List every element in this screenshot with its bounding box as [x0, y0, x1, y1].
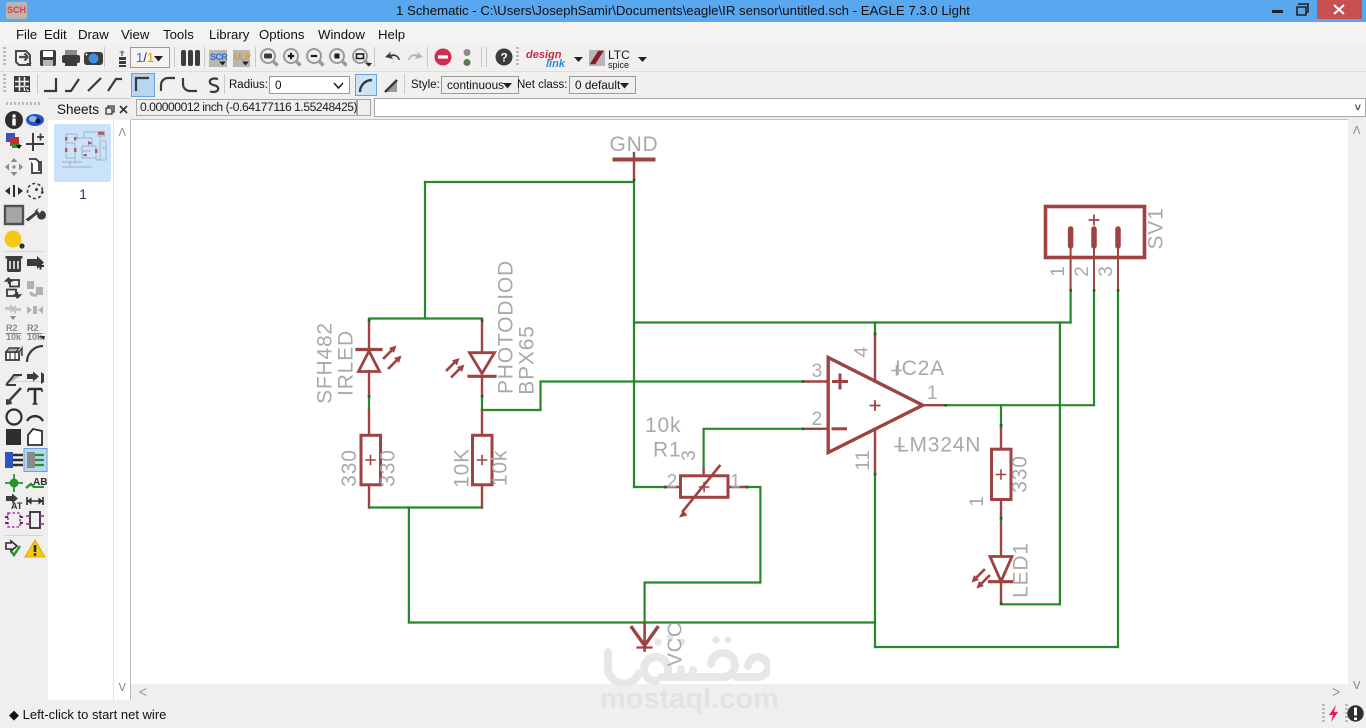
wire op-amp pin2 to R1 wiper [704, 429, 803, 469]
wire op-amp pin11 down [874, 474, 876, 647]
resistor R 330 (left) [361, 410, 381, 508]
status bar [0, 700, 1366, 728]
junction pin-end dots [368, 179, 1120, 605]
wire top rail to SV1 pin1 [634, 321, 1071, 323]
ground symbol GND [615, 153, 654, 180]
wire GND vertical [633, 180, 635, 487]
wire bottom right rail [875, 646, 1118, 648]
svg-text:SCR: SCR [210, 52, 228, 62]
wire 330 to LED1 segment [1000, 518, 1002, 524]
wire VCC bottom rail [409, 621, 875, 623]
resistor 330 (LED1) [992, 425, 1012, 556]
toolbar row 2 [0, 72, 1366, 98]
sheets panel [48, 120, 131, 700]
wire SV1 pin2 drop [1093, 290, 1095, 405]
wire left drop to LED rail [424, 182, 426, 319]
op-amp U1 IC2A [803, 334, 946, 474]
window title bar [0, 0, 1366, 22]
LED D1 SFH482 [357, 320, 402, 396]
wire R1 pin1 down to VCC node [645, 487, 761, 623]
supply symbol VCC [632, 623, 658, 651]
watermark mostaql.com [600, 683, 770, 716]
svg-text:ULP: ULP [234, 52, 251, 62]
wire photodiode mid segment [481, 396, 483, 410]
op-amp name IC2A [892, 357, 945, 380]
wire SV1 pin3 loop [1117, 290, 1119, 647]
resistor R 10K (right) [473, 410, 493, 508]
potentiometer R1 10k [665, 466, 747, 518]
command row [0, 98, 1366, 120]
LED1 [972, 557, 1013, 604]
op-amp value LM324N [895, 434, 981, 457]
wire LED top rail [369, 317, 482, 319]
svg-text:AT: AT [11, 501, 23, 511]
wire output to 330 resistor [1000, 405, 1002, 425]
wire LED1 cathode across [1001, 603, 1060, 605]
svg-text:spice: spice [608, 60, 629, 70]
canvas [131, 119, 1348, 684]
wire LED mid segment [368, 396, 370, 410]
wire photodiode to op-amp input [482, 382, 803, 411]
wire GND to R1 pin2 [634, 486, 665, 488]
wire op-amp pin4 to top rail [874, 323, 876, 335]
toolbar row 1 [0, 44, 1366, 72]
wire LED bottom rail [369, 506, 482, 508]
wire op-amp output [946, 404, 1095, 406]
photodiode BPX65 [447, 320, 495, 396]
wire SV1 pin1 net to LED1 [1059, 323, 1061, 605]
svg-text:?: ? [501, 51, 508, 65]
connector SV1 [1046, 207, 1145, 291]
svg-text:link: link [546, 58, 566, 70]
watermark arabic [598, 630, 770, 690]
bottom scrollbar [131, 684, 1348, 700]
wire LED rail drop to VCC rail [408, 508, 410, 623]
menu bar [0, 22, 1366, 44]
wire GND net horizontal top [369, 180, 1118, 647]
wire SV1 pin1 stub [1069, 290, 1071, 323]
right scrollbar [1348, 120, 1366, 700]
left tool column [0, 98, 48, 684]
